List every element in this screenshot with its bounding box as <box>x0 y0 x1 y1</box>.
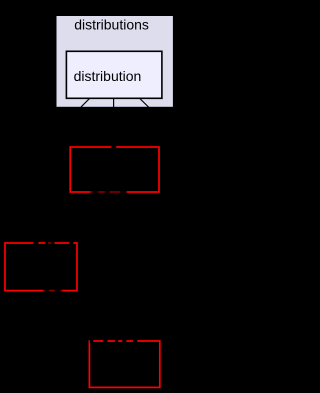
notch: text over red box 3 top border (fourth) <box>122 339 126 343</box>
notch: text over red box 3 top border (fifth) <box>133 339 137 343</box>
notch: arrowhead over red box 3 top border (third) <box>115 339 118 343</box>
notch: arrowhead over red box 1 top border <box>111 145 116 149</box>
notch: text over red box 2 top border (third) <box>51 241 54 245</box>
cluster distributions <box>56 15 174 107</box>
svg-text:distributions: distributions <box>74 17 149 33</box>
red box 3 (bottom dependency) <box>89 341 159 387</box>
edge to bottom red box <box>139 98 149 108</box>
svg-text:distribution: distribution <box>74 68 142 84</box>
edge to middle red box <box>113 98 115 107</box>
notch: text over red box 2 bottom border (right) <box>55 289 61 292</box>
notch: text over red box 3 top border (first) <box>90 339 94 343</box>
notch: text over red box 1 bottom border (right) <box>120 191 127 194</box>
notch: text over red box 2 top border (second) <box>45 241 48 245</box>
notch: dim text over red box 2 top border <box>48 242 51 245</box>
red box 1 (middle dependency) <box>70 147 159 192</box>
notch: text over red box 3 top border (second) <box>103 339 107 343</box>
node distribution <box>66 51 161 98</box>
red box 2 (left dependency) <box>5 243 77 291</box>
notch: arrowhead over red box 2 top border (fourth) <box>69 241 73 245</box>
notch: text over red box 1 bottom border (left) <box>93 191 99 194</box>
notch: dim text band over red box 1 bottom border <box>90 191 127 194</box>
notch: text over red box 1 bottom border (middle) <box>105 191 110 194</box>
notch: dim text band over red box 2 bottom border <box>43 289 62 292</box>
edge to left red box <box>81 98 90 107</box>
notch: text over red box 2 top border (first) <box>33 241 38 245</box>
notch: text over red box 2 bottom border (left) <box>44 289 49 292</box>
